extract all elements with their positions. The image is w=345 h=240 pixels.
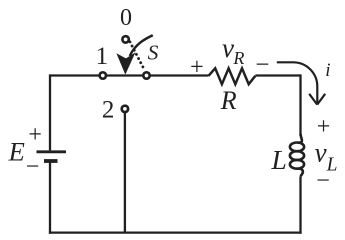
switch throw arc xyxy=(130,35,153,56)
wire top-left segment xyxy=(50,74,209,76)
switch blade dotted line xyxy=(130,42,145,71)
svg-text:R: R xyxy=(232,48,244,68)
resistor R zigzag xyxy=(209,68,256,84)
switch throw arrowhead xyxy=(116,52,135,74)
svg-text:v: v xyxy=(315,137,327,167)
battery E short plate xyxy=(44,159,58,163)
svg-text:+: + xyxy=(28,122,42,148)
svg-text:+: + xyxy=(190,54,204,80)
battery E long plate xyxy=(37,150,67,153)
svg-text:−: − xyxy=(255,52,269,79)
svg-text:−: − xyxy=(316,168,330,194)
wire left upper xyxy=(49,74,51,150)
inductor L coil xyxy=(290,134,304,176)
switch pole circle xyxy=(143,72,149,78)
svg-text:+: + xyxy=(317,114,331,140)
switch terminal 0 circle xyxy=(122,36,128,42)
wire switch position 2 branch xyxy=(124,112,126,233)
svg-text:i: i xyxy=(325,60,330,81)
wire right lower xyxy=(299,176,301,233)
wire left lower xyxy=(49,162,51,233)
svg-text:v: v xyxy=(222,33,234,63)
wire bottom xyxy=(49,231,302,233)
svg-text:S: S xyxy=(148,40,159,64)
svg-text:1: 1 xyxy=(96,43,109,70)
svg-text:0: 0 xyxy=(120,5,132,31)
svg-text:E: E xyxy=(8,137,25,167)
switch terminal 1 circle xyxy=(100,72,106,78)
svg-text:2: 2 xyxy=(102,96,115,123)
switch terminal 2 circle xyxy=(122,106,128,112)
current arrow i xyxy=(277,62,325,104)
wire top-right segment xyxy=(255,74,300,76)
wire right upper xyxy=(299,74,301,136)
svg-text:−: − xyxy=(26,154,40,180)
svg-text:R: R xyxy=(220,86,237,115)
svg-text:L: L xyxy=(271,144,287,175)
